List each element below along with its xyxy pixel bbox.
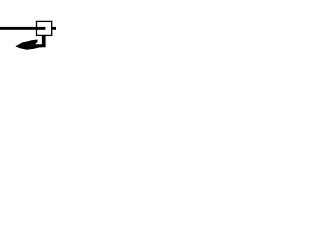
wire (bottom lead: down from box, elbow left): [35, 35, 46, 47]
circuit schematic fragment: [0, 0, 56, 56]
wire (right stub from box to image edge): [52, 27, 56, 30]
component box U1: [37, 21, 52, 35]
background: [0, 0, 56, 56]
arrow (bold annotation arrow pointing left): [15, 40, 42, 50]
wire (horizontal, from left edge into component box): [0, 27, 45, 30]
